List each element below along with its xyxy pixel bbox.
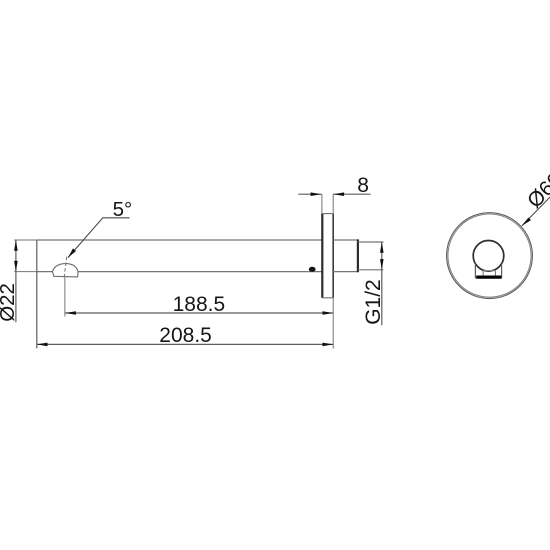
aerator nozzle bump (side view) xyxy=(53,264,79,277)
leader line for 5 degree label xyxy=(68,218,130,258)
svg-text:8: 8 xyxy=(357,174,369,197)
dimension 208.5 xyxy=(37,324,333,347)
wall flange plate (side view) xyxy=(322,214,333,298)
front view spout circle xyxy=(473,241,504,272)
dimension G1/2 xyxy=(362,242,385,325)
extension line from aerator center xyxy=(64,277,66,316)
dimension D22 spout diameter xyxy=(0,240,37,322)
front view flange outer circle xyxy=(447,213,533,299)
svg-text:Ø22: Ø22 xyxy=(0,283,19,322)
spout tip end cap and extension line xyxy=(36,240,38,348)
aerator dashed centerline xyxy=(64,257,67,278)
spout tube bottom line xyxy=(37,271,323,273)
label 5 degrees xyxy=(113,198,133,221)
svg-text:5°: 5° xyxy=(113,198,133,221)
dimension 188.5 xyxy=(65,293,333,316)
tube collar behind wall flange xyxy=(333,239,358,272)
G1/2 threaded pipe xyxy=(358,242,384,270)
set screw hole ellipse on tube underside xyxy=(310,268,314,271)
svg-text:208.5: 208.5 xyxy=(159,324,212,347)
svg-text:G1/2: G1/2 xyxy=(362,279,385,325)
label D60 xyxy=(523,168,550,212)
svg-text:Ø60: Ø60 xyxy=(523,168,550,212)
dimension 8 flange thickness xyxy=(298,174,370,214)
front view aerator bracket xyxy=(475,264,501,279)
spout tube top line xyxy=(37,239,323,241)
svg-text:188.5: 188.5 xyxy=(173,293,226,316)
leader line for D60 label xyxy=(522,197,550,226)
wall face extension line below flange xyxy=(332,298,334,349)
